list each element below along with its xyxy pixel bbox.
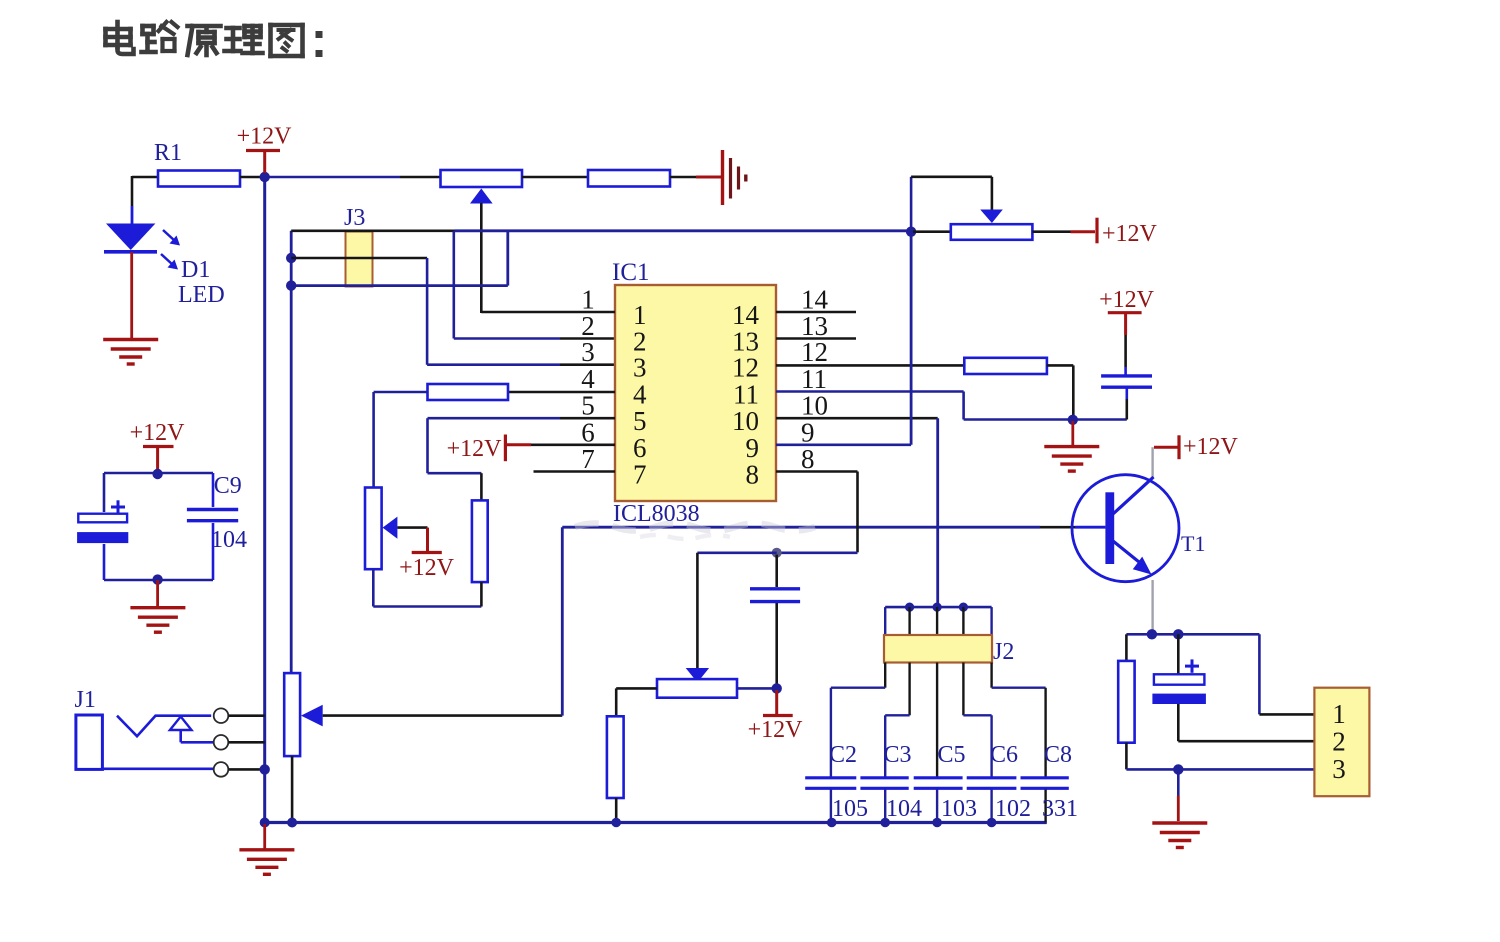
svg-text:C9: C9 (214, 473, 242, 499)
svg-text:331: 331 (1042, 796, 1078, 822)
ground (top right, rotated) (723, 150, 746, 205)
label 105 (832, 796, 868, 822)
node pin11/R5 junction (1068, 415, 1078, 425)
wire C3 top lead (885, 663, 909, 778)
svg-text:ICL8038: ICL8038 (613, 501, 700, 527)
svg-text:12: 12 (801, 337, 828, 367)
wire P4 left to R7 (616, 688, 657, 716)
potentiometer P3 (284, 673, 300, 756)
svg-text:+12V: +12V (399, 555, 455, 581)
wire bus to ground (263, 824, 266, 849)
svg-text:5: 5 (581, 391, 595, 421)
label C9 (214, 473, 242, 499)
power +12V (C10) (1099, 287, 1155, 335)
wire J2 pin leads top (885, 607, 991, 636)
potentiometer P2 (365, 488, 382, 570)
svg-text:J2: J2 (993, 639, 1014, 665)
wire T1 emitter down (1151, 580, 1153, 634)
wire IC1 pin8 net (776, 472, 858, 553)
J1 pad 2 (214, 735, 229, 750)
wire junction to RP1 (267, 176, 441, 179)
wire C9 to ground (156, 580, 159, 607)
svg-text:102: 102 (995, 796, 1031, 822)
connector CON1 (1314, 688, 1369, 797)
ground (below C9) (130, 608, 185, 633)
LED D1 (104, 224, 157, 252)
node pin8/C4 junction (772, 548, 782, 558)
wire C6 top lead (963, 663, 991, 778)
wire emitter net top (1126, 634, 1259, 714)
svg-text:7: 7 (633, 460, 647, 490)
svg-text:6: 6 (581, 417, 595, 447)
node bus cap junctions (827, 818, 996, 828)
wire J3 rail vertical (x=291) (290, 231, 293, 673)
P4 wiper arrow (686, 668, 709, 683)
ground (below D1) (103, 340, 158, 365)
wire IC1 pin13 stub (776, 337, 856, 340)
wire P2/R4 bottom loop (373, 569, 481, 606)
RP2 wiper arrow (980, 210, 1003, 224)
svg-text:9: 9 (801, 417, 815, 447)
J1 ring switch (170, 717, 213, 743)
wire E2 bottom to CON1 pin2 (1178, 704, 1314, 741)
svg-text:14: 14 (732, 300, 760, 330)
wire T1 collector to +12V (1151, 447, 1153, 477)
wire +12V rail vertical (x=265) (263, 177, 266, 823)
svg-text:1: 1 (581, 285, 595, 315)
wire R1 to +12V junction (240, 176, 262, 179)
capacitor C4 (750, 555, 800, 689)
svg-text:1: 1 (1332, 699, 1346, 729)
label C3 (884, 742, 912, 768)
wire R7 bottom (615, 798, 618, 823)
power +12V (P4) (748, 690, 804, 743)
capacitor C6 (967, 778, 1017, 789)
J1 sleeve wire (102, 767, 213, 770)
label C5 (938, 742, 966, 768)
potentiometer RP1 (441, 170, 523, 187)
potentiometer P4 (657, 679, 737, 698)
capacitor C9 (187, 510, 238, 521)
svg-text:6: 6 (633, 433, 647, 463)
svg-text:+12V: +12V (130, 420, 186, 446)
resistor R6 (1118, 661, 1134, 743)
wire C8 top lead (992, 663, 1046, 778)
label 104 (211, 527, 247, 553)
wire C9 loop top (104, 472, 213, 475)
ground (bottom left) (239, 850, 294, 875)
capacitor C10 (1101, 376, 1152, 387)
svg-text:T1: T1 (1181, 531, 1205, 556)
node bus R7 (611, 818, 621, 828)
svg-text:R1: R1 (154, 140, 182, 166)
label IC1 (612, 259, 650, 286)
power +12V (P2 wiper) (399, 528, 455, 581)
CON1 pin 1 label (1332, 699, 1346, 729)
svg-text:IC1: IC1 (612, 259, 650, 286)
power +12V (pin6) (447, 435, 531, 463)
node bus left (260, 818, 297, 828)
label C6 (990, 742, 1018, 768)
node +12V rail junction (260, 172, 270, 182)
connector J3 (344, 205, 373, 287)
node C9 bottom (152, 574, 162, 584)
node output ground junction (1173, 764, 1183, 774)
wire IC1 pin7 stub (534, 470, 616, 473)
title text 电路原理图: (106, 22, 323, 57)
wire IC1 pin6 (531, 443, 615, 446)
J1 tip contact (117, 716, 211, 737)
label 102 (995, 796, 1031, 822)
wire RP2 to +12V (1032, 230, 1095, 233)
node J2 top pins (905, 603, 968, 612)
svg-text:+12V: +12V (748, 717, 804, 743)
svg-text:D1: D1 (181, 257, 210, 283)
label J2 (993, 639, 1014, 665)
IC1 pin 13 number (732, 311, 828, 357)
wire IC1 pin1 (481, 311, 615, 314)
resistor R4 (472, 500, 488, 582)
IC1 pin 10 number (732, 391, 828, 437)
label C8 (1044, 742, 1072, 768)
svg-text:4: 4 (581, 364, 595, 394)
wire C5 top lead (936, 663, 938, 778)
wire C9 loop bottom (104, 579, 213, 582)
wire J3 middle net to IC pin3 (291, 258, 615, 365)
wire LED cathode to ground (130, 252, 133, 339)
svg-text:LED: LED (178, 282, 225, 308)
capacitor E2 (electrolytic) (1152, 634, 1206, 704)
svg-text:105: 105 (832, 796, 868, 822)
wire R5 right (1047, 365, 1073, 419)
IC1 pin 12 number (732, 337, 828, 383)
P2 wiper arrow (383, 517, 428, 539)
capacitor C3 (860, 778, 908, 789)
wire cap bottom leads (831, 790, 1047, 823)
node pad3 junction (260, 764, 270, 774)
potentiometer RP2 (951, 224, 1033, 240)
capacitor C5 (914, 778, 963, 789)
label 103 (941, 796, 977, 822)
connector J2 (884, 635, 992, 663)
wire IC1 pin12 to R5 (776, 364, 964, 367)
wire RP2 left (913, 230, 951, 233)
wire J3 top to IC pin2 (454, 231, 615, 339)
svg-text:8: 8 (801, 444, 815, 474)
svg-text:+12V: +12V (1102, 221, 1158, 247)
transistor T1 (1072, 475, 1179, 582)
resistor R3 (428, 384, 509, 400)
svg-text:103: 103 (941, 796, 977, 822)
wire RP1 to R2 (522, 176, 588, 179)
svg-text:10: 10 (732, 406, 759, 436)
IC1 pin 3 number (581, 337, 646, 383)
svg-text:3: 3 (581, 337, 595, 367)
IC IC1 ICL8038 body (615, 285, 776, 501)
IC1 pin 9 number (746, 417, 815, 463)
wire IC1 pin14 stub (776, 311, 856, 314)
wire junction to ground (1071, 421, 1074, 445)
wire C9 loop right (212, 473, 215, 580)
wire C10 top lead (1124, 335, 1127, 375)
capacitor E1 (electrolytic) (77, 500, 128, 543)
wire output ground net (1126, 768, 1314, 771)
node emitter junction (1147, 629, 1184, 639)
IC1 pin 4 number (581, 364, 647, 410)
svg-text:7: 7 (581, 444, 595, 474)
wire IC1 pin4 from R3 (508, 391, 615, 394)
node C9 top (152, 469, 162, 479)
IC1 pin 14 number (732, 285, 829, 331)
wire R6 top lead (1125, 634, 1128, 661)
resistor R5 (964, 358, 1047, 374)
capacitor C2 (805, 778, 856, 789)
wire J2 top net (885, 606, 991, 609)
wire long net y=527 (562, 524, 1105, 540)
svg-text:J1: J1 (75, 687, 96, 713)
svg-text:8: 8 (746, 460, 760, 490)
IC1 pin 7 number (581, 444, 646, 490)
wire IC1 pin11 net (776, 392, 1127, 420)
power +12V (top left) (237, 124, 293, 174)
RP1 wiper arrow (470, 189, 493, 314)
svg-text:4: 4 (633, 380, 647, 410)
power +12V (RP2) (1097, 218, 1158, 247)
svg-text:C8: C8 (1044, 742, 1072, 768)
CON1 pin 2 label (1332, 727, 1346, 757)
IC1 pin 5 number (581, 391, 646, 437)
capacitor C8 (1021, 778, 1069, 789)
svg-text:+12V: +12V (1099, 287, 1155, 313)
wire J1 pad1 to rail (229, 714, 265, 717)
wire J3 bottom net (291, 231, 508, 286)
P3 wiper arrow (301, 705, 562, 727)
svg-text:+12V: +12V (447, 436, 503, 462)
ground (output) (1152, 823, 1207, 848)
label T1 (1181, 531, 1205, 556)
node J3 pin3 (286, 280, 296, 290)
wire P4 right (737, 687, 777, 690)
svg-text:+12V: +12V (1183, 434, 1239, 460)
wire C9 loop left (103, 473, 106, 580)
node RP2 junction (906, 227, 916, 237)
wire R3 left (374, 392, 428, 488)
IC1 pin 8 number (746, 444, 815, 490)
svg-text:5: 5 (633, 406, 647, 436)
wire C10 bottom lead (1126, 389, 1129, 420)
IC1 pin 11 number (733, 364, 827, 410)
label LED (178, 282, 225, 308)
svg-text:J3: J3 (344, 205, 365, 231)
IC1 pin 2 number (581, 311, 646, 357)
wire IC1 pin10 net (776, 418, 938, 607)
svg-text:104: 104 (211, 527, 247, 553)
svg-text:10: 10 (801, 391, 828, 421)
wire R1 left + LED anode (132, 176, 159, 224)
svg-text:C3: C3 (884, 742, 912, 768)
svg-text:9: 9 (746, 433, 760, 463)
wire ground bus (265, 821, 1047, 824)
label C2 (829, 742, 857, 768)
wire wiper riser (x=562) (561, 527, 564, 715)
node J3 pin2 (286, 253, 296, 263)
ground (mid right) (1044, 447, 1099, 472)
svg-text:12: 12 (732, 353, 759, 383)
connector J1 body (76, 715, 103, 769)
wire J3 top net (291, 230, 911, 233)
resistor R2 (588, 170, 670, 187)
wire J1 pad2 to rail (229, 741, 265, 744)
wire junction to ground (1177, 769, 1180, 821)
svg-text:C5: C5 (938, 742, 966, 768)
svg-text:104: 104 (886, 796, 922, 822)
svg-text:1: 1 (633, 300, 647, 330)
resistor R7 (607, 716, 624, 798)
node P4/C4 junction (772, 683, 782, 693)
label 104 (C3) (886, 796, 922, 822)
RP2 wiper loop (911, 177, 992, 229)
wire IC1 pin9 net (776, 232, 911, 445)
J1 pad 3 (214, 762, 229, 777)
LED D1 emission arrows (161, 230, 180, 270)
wire C4 net (697, 553, 776, 668)
IC1 pin 1 number (581, 285, 646, 331)
label J1 (75, 687, 96, 713)
resistor R1 (154, 140, 240, 187)
wire to CON1 pin1 (1259, 713, 1314, 716)
svg-text:3: 3 (633, 353, 647, 383)
svg-text:3: 3 (1332, 754, 1346, 784)
J1 pad 1 (214, 708, 229, 723)
IC1 pin 6 number (581, 417, 646, 463)
power +12V (T1 collector) (1154, 434, 1239, 460)
label D1 (181, 257, 210, 283)
wire C2 top lead (831, 663, 885, 778)
wire R2 to ground (670, 176, 722, 179)
svg-text:C2: C2 (829, 742, 857, 768)
wire R6 bottom lead (1125, 743, 1128, 770)
svg-text:14: 14 (801, 285, 829, 315)
label ICL8038 (613, 501, 700, 527)
svg-text:11: 11 (733, 380, 759, 410)
wire J1 pad3 to rail (229, 768, 265, 771)
svg-text:11: 11 (801, 364, 827, 394)
svg-text:+12V: +12V (237, 124, 293, 150)
wire P3 bottom to bus (291, 756, 294, 822)
CON1 pin 3 label (1332, 754, 1346, 784)
svg-text:C6: C6 (990, 742, 1018, 768)
wire IC1 pin5 net (428, 418, 616, 500)
svg-text:2: 2 (1332, 727, 1346, 757)
label 331 (1042, 796, 1078, 822)
power +12V (C9) (130, 420, 186, 470)
